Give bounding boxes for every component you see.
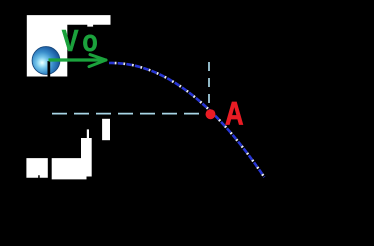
black tick below ball center bbox=[48, 61, 51, 81]
white spike on tower bbox=[87, 129, 89, 138]
white patch top-left (L-shaped background block behind ball and Vo) bbox=[27, 15, 111, 76]
label A bbox=[225, 96, 244, 133]
label Vo bbox=[62, 24, 104, 58]
svg-text:Vo: Vo bbox=[62, 24, 104, 58]
horizontal dashed guide line bbox=[52, 113, 206, 115]
velocity arrowhead bbox=[89, 55, 106, 67]
white patch lower-middle bar with tower bbox=[52, 138, 92, 179]
point A red dot bbox=[206, 109, 216, 119]
trajectory white dash highlights bbox=[109, 63, 264, 177]
white patch small vertical rect near dashed line bbox=[102, 119, 110, 140]
white patch lower-left rectangle bbox=[26, 158, 47, 178]
trajectory blue dashed curve bbox=[109, 63, 264, 177]
vertical dashed guide line bbox=[208, 62, 210, 112]
velocity arrow shaft bbox=[49, 58, 105, 61]
ball bbox=[32, 47, 60, 75]
svg-text:A: A bbox=[225, 96, 244, 133]
